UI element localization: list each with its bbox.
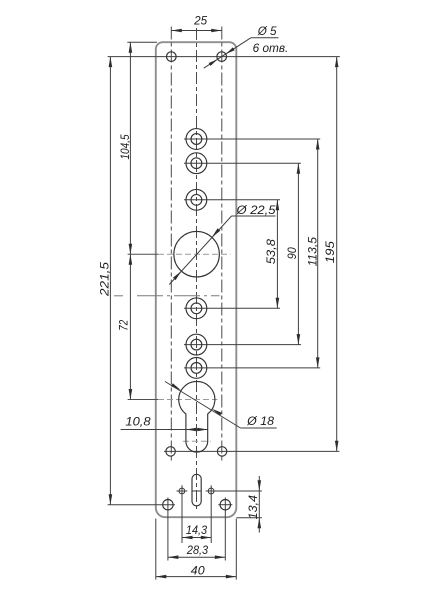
extension line plate bottom edge right — [237, 517, 262, 519]
hole H3 outer — [186, 189, 207, 210]
fixing hole bottom-right — [220, 500, 230, 510]
extension line plate left edge down — [155, 519, 157, 580]
keyhole cylinder cutout D18 — [179, 381, 215, 452]
extension line bottom left fixing hole — [108, 504, 175, 506]
extension line small holes down right — [210, 485, 212, 543]
svg-text:221,5: 221,5 — [97, 262, 111, 297]
svg-text:Ø 18: Ø 18 — [246, 414, 274, 428]
dimension 10,8 line — [121, 429, 208, 431]
svg-text:40: 40 — [191, 563, 205, 577]
svg-text:72: 72 — [116, 320, 130, 331]
hole H5 inner — [191, 339, 202, 350]
dimension 25 line — [171, 30, 221, 32]
dimension 113,5 line — [317, 139, 319, 368]
center mark small hole left — [177, 490, 188, 492]
centerline horizontal keyhole bottom arc — [183, 440, 211, 442]
hole top-right D5 — [217, 52, 227, 62]
center mark oval slot — [193, 490, 201, 492]
centerline horizontal keyhole circle — [128, 399, 158, 401]
leader D18 — [165, 382, 241, 429]
hole H4 inner — [191, 303, 202, 314]
extension line hole H2 — [184, 162, 301, 164]
svg-text:90: 90 — [285, 247, 299, 259]
extension line fixing hole down right — [224, 498, 226, 561]
centerline vertical left hole axis — [170, 27, 172, 462]
hole H1 outer — [186, 129, 207, 150]
centerline horizontal mid plate long dash — [137, 295, 220, 297]
extension line fixing hole down left — [167, 498, 169, 561]
svg-text:28,3: 28,3 — [186, 543, 208, 557]
svg-text:Ø 22,5: Ø 22,5 — [235, 203, 275, 217]
svg-text:25: 25 — [193, 13, 207, 27]
dimension 13,4 line — [258, 476, 260, 533]
svg-text:113,5: 113,5 — [305, 237, 319, 267]
hole H6 inner — [191, 363, 202, 374]
hole H1 inner — [191, 134, 202, 145]
hole H5 outer — [186, 334, 207, 355]
hole H6 outer — [186, 358, 207, 379]
svg-text:104,5: 104,5 — [118, 134, 132, 159]
hole H4 outer — [186, 298, 207, 319]
svg-text:Ø 5: Ø 5 — [257, 24, 277, 38]
extension line hole H1 — [184, 138, 320, 140]
hole top-left D5 — [167, 52, 177, 62]
extension line small hole right — [206, 490, 262, 492]
centerline horizontal big circle — [128, 253, 158, 255]
hole H2 outer — [186, 153, 207, 174]
hole H3 inner — [191, 194, 202, 205]
centerline vertical right hole axis — [221, 27, 223, 462]
extension line plate top edge — [127, 41, 157, 43]
svg-text:195: 195 — [323, 241, 337, 263]
centerline horizontal mid plate short dash — [114, 295, 123, 297]
dimension 28,3 line — [168, 556, 225, 558]
hole H2 inner — [191, 158, 202, 169]
svg-text:14,3: 14,3 — [186, 523, 207, 537]
big hole D22.5 — [174, 231, 220, 277]
extension line through lower screw holes — [164, 450, 339, 452]
dimension 53,8 line — [276, 200, 278, 308]
plate outline — [156, 42, 237, 517]
extension line hole H3 — [184, 199, 280, 201]
extension line plate right edge down — [235, 519, 237, 580]
svg-text:10,8: 10,8 — [125, 414, 151, 428]
center mark bottom right fixing hole — [218, 504, 232, 506]
svg-text:6 отв.: 6 отв. — [253, 41, 289, 55]
svg-text:53,8: 53,8 — [264, 239, 278, 265]
extension line hole H5 — [184, 344, 301, 346]
dimension 104,5 line — [129, 42, 131, 254]
dimension 40 line — [156, 576, 237, 578]
dimension 72 line — [129, 254, 131, 399]
extension line hole H6 — [184, 367, 320, 369]
small hole left — [179, 488, 185, 494]
small hole right — [208, 488, 214, 494]
svg-text:13,4: 13,4 — [246, 495, 260, 520]
dimension 195 line — [336, 57, 338, 452]
extension line through top holes — [108, 56, 340, 58]
leader D22,5 — [169, 216, 231, 285]
fixing hole bottom-left — [163, 500, 173, 510]
hole bottom-left D5 — [166, 447, 175, 456]
centerline vertical main axis — [196, 28, 198, 511]
leader D5 — [204, 38, 251, 68]
hole bottom-right D5 — [217, 447, 226, 456]
extension line small holes down left — [181, 485, 183, 543]
oval slot — [192, 474, 201, 506]
extension line hole H4 — [184, 307, 280, 309]
dimension 90 line — [297, 163, 299, 344]
dimension 14,3 line — [182, 537, 211, 539]
dimension 221,5 line — [109, 57, 111, 505]
